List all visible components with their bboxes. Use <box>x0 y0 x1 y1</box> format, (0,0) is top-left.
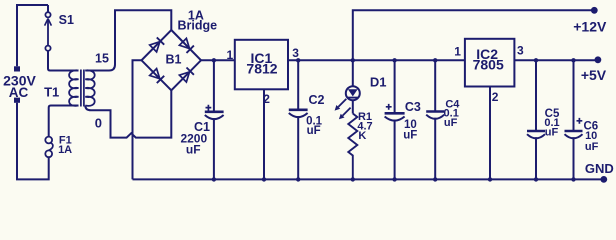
svg-text:B1: B1 <box>166 53 182 67</box>
svg-text:C2: C2 <box>309 93 325 107</box>
node junction C6 <box>571 58 575 62</box>
wire secondary 0 to bridge with hop <box>85 90 171 137</box>
wire mains top <box>17 5 48 66</box>
resistor R1 <box>348 114 357 180</box>
svg-text:+5V: +5V <box>581 67 607 83</box>
regulator IC1 7812 <box>235 40 288 90</box>
svg-text:C3: C3 <box>405 100 421 114</box>
svg-text:7812: 7812 <box>246 60 277 76</box>
wire switch to primary <box>48 51 79 71</box>
svg-text:uF: uF <box>585 141 599 153</box>
svg-text:0: 0 <box>95 115 102 130</box>
wire <box>213 60 215 179</box>
svg-text:uF: uF <box>186 143 201 157</box>
wire <box>434 60 436 179</box>
node +5V terminal <box>595 56 602 63</box>
wire +5V line <box>514 59 598 61</box>
node junction C4 <box>433 58 437 62</box>
wire primary to fuse <box>49 106 79 137</box>
wire secondary 15 to bridge <box>85 10 171 70</box>
wire <box>394 60 396 179</box>
capacitor C4 <box>426 110 444 113</box>
node ground junction <box>212 177 216 181</box>
wire bridge plus to IC1 <box>201 59 235 61</box>
node ground junction <box>262 177 266 181</box>
svg-text:GND: GND <box>585 161 614 176</box>
node junction C5 <box>534 58 538 62</box>
svg-text:D1: D1 <box>370 74 387 89</box>
svg-text:T1: T1 <box>44 84 59 99</box>
diode B1 bottom-left <box>150 69 160 79</box>
capacitor C2 <box>289 109 308 112</box>
wire <box>47 5 49 12</box>
wire bridge minus to ground <box>133 60 142 179</box>
diode B1 top-left <box>150 42 160 52</box>
capacitor C6 <box>565 130 583 133</box>
svg-text:15: 15 <box>95 52 109 66</box>
LED D1 <box>352 60 354 113</box>
svg-text:7805: 7805 <box>473 57 504 73</box>
svg-text:uF: uF <box>307 125 321 137</box>
transformer T1 core <box>81 70 84 107</box>
node ground junction <box>351 177 355 181</box>
wire IC1 pin2 to ground <box>263 89 265 179</box>
node ground junction <box>571 177 575 181</box>
bridge B1 diamond <box>142 30 202 90</box>
fuse F1 <box>45 137 52 144</box>
svg-text:uF: uF <box>403 130 417 142</box>
regulator IC2 7805 <box>465 39 515 87</box>
wire <box>573 60 575 179</box>
svg-text:K: K <box>358 130 366 142</box>
capacitor C1 <box>205 111 224 114</box>
wire <box>535 60 537 179</box>
node GND terminal <box>600 176 607 183</box>
svg-text:1A: 1A <box>58 144 72 156</box>
node ground junction <box>433 177 437 181</box>
switch S1 <box>45 12 50 17</box>
svg-text:uF: uF <box>545 127 559 139</box>
node 230V AC top terminal <box>14 66 20 71</box>
svg-text:S1: S1 <box>59 13 74 27</box>
svg-text:1: 1 <box>227 48 234 62</box>
svg-text:1: 1 <box>454 45 461 59</box>
capacitor C3 <box>385 112 405 115</box>
svg-text:uF: uF <box>444 117 458 129</box>
node junction C2 <box>296 58 300 62</box>
svg-text:2: 2 <box>492 90 499 104</box>
node ground junction <box>534 177 538 181</box>
transformer T1 secondary winding <box>85 70 94 106</box>
wire IC2 pin2 to ground <box>489 87 491 180</box>
wire <box>297 60 299 179</box>
wire ground rail <box>133 178 604 180</box>
node +12V terminal <box>591 7 598 14</box>
svg-text:+12V: +12V <box>573 19 607 35</box>
svg-text:Bridge: Bridge <box>178 18 218 32</box>
wire mains bottom <box>17 103 49 180</box>
node junction D1 <box>351 58 355 62</box>
node junction C3 <box>392 58 396 62</box>
diode B1 bottom-right <box>179 72 189 82</box>
svg-text:AC: AC <box>9 85 29 100</box>
transformer T1 primary winding <box>69 70 78 106</box>
node ground junction <box>296 177 300 181</box>
node ground junction <box>488 177 492 181</box>
svg-text:3: 3 <box>517 43 524 57</box>
svg-text:3: 3 <box>292 46 299 60</box>
node ground junction <box>392 177 396 181</box>
capacitor C5 <box>527 130 545 133</box>
node 230V AC bottom terminal <box>14 98 20 103</box>
wire +12V line <box>288 59 465 61</box>
LED D1 arrows <box>338 99 346 107</box>
wire +12V rail <box>353 10 595 60</box>
node junction C1 <box>212 58 216 62</box>
diode B1 top-right <box>179 38 189 48</box>
